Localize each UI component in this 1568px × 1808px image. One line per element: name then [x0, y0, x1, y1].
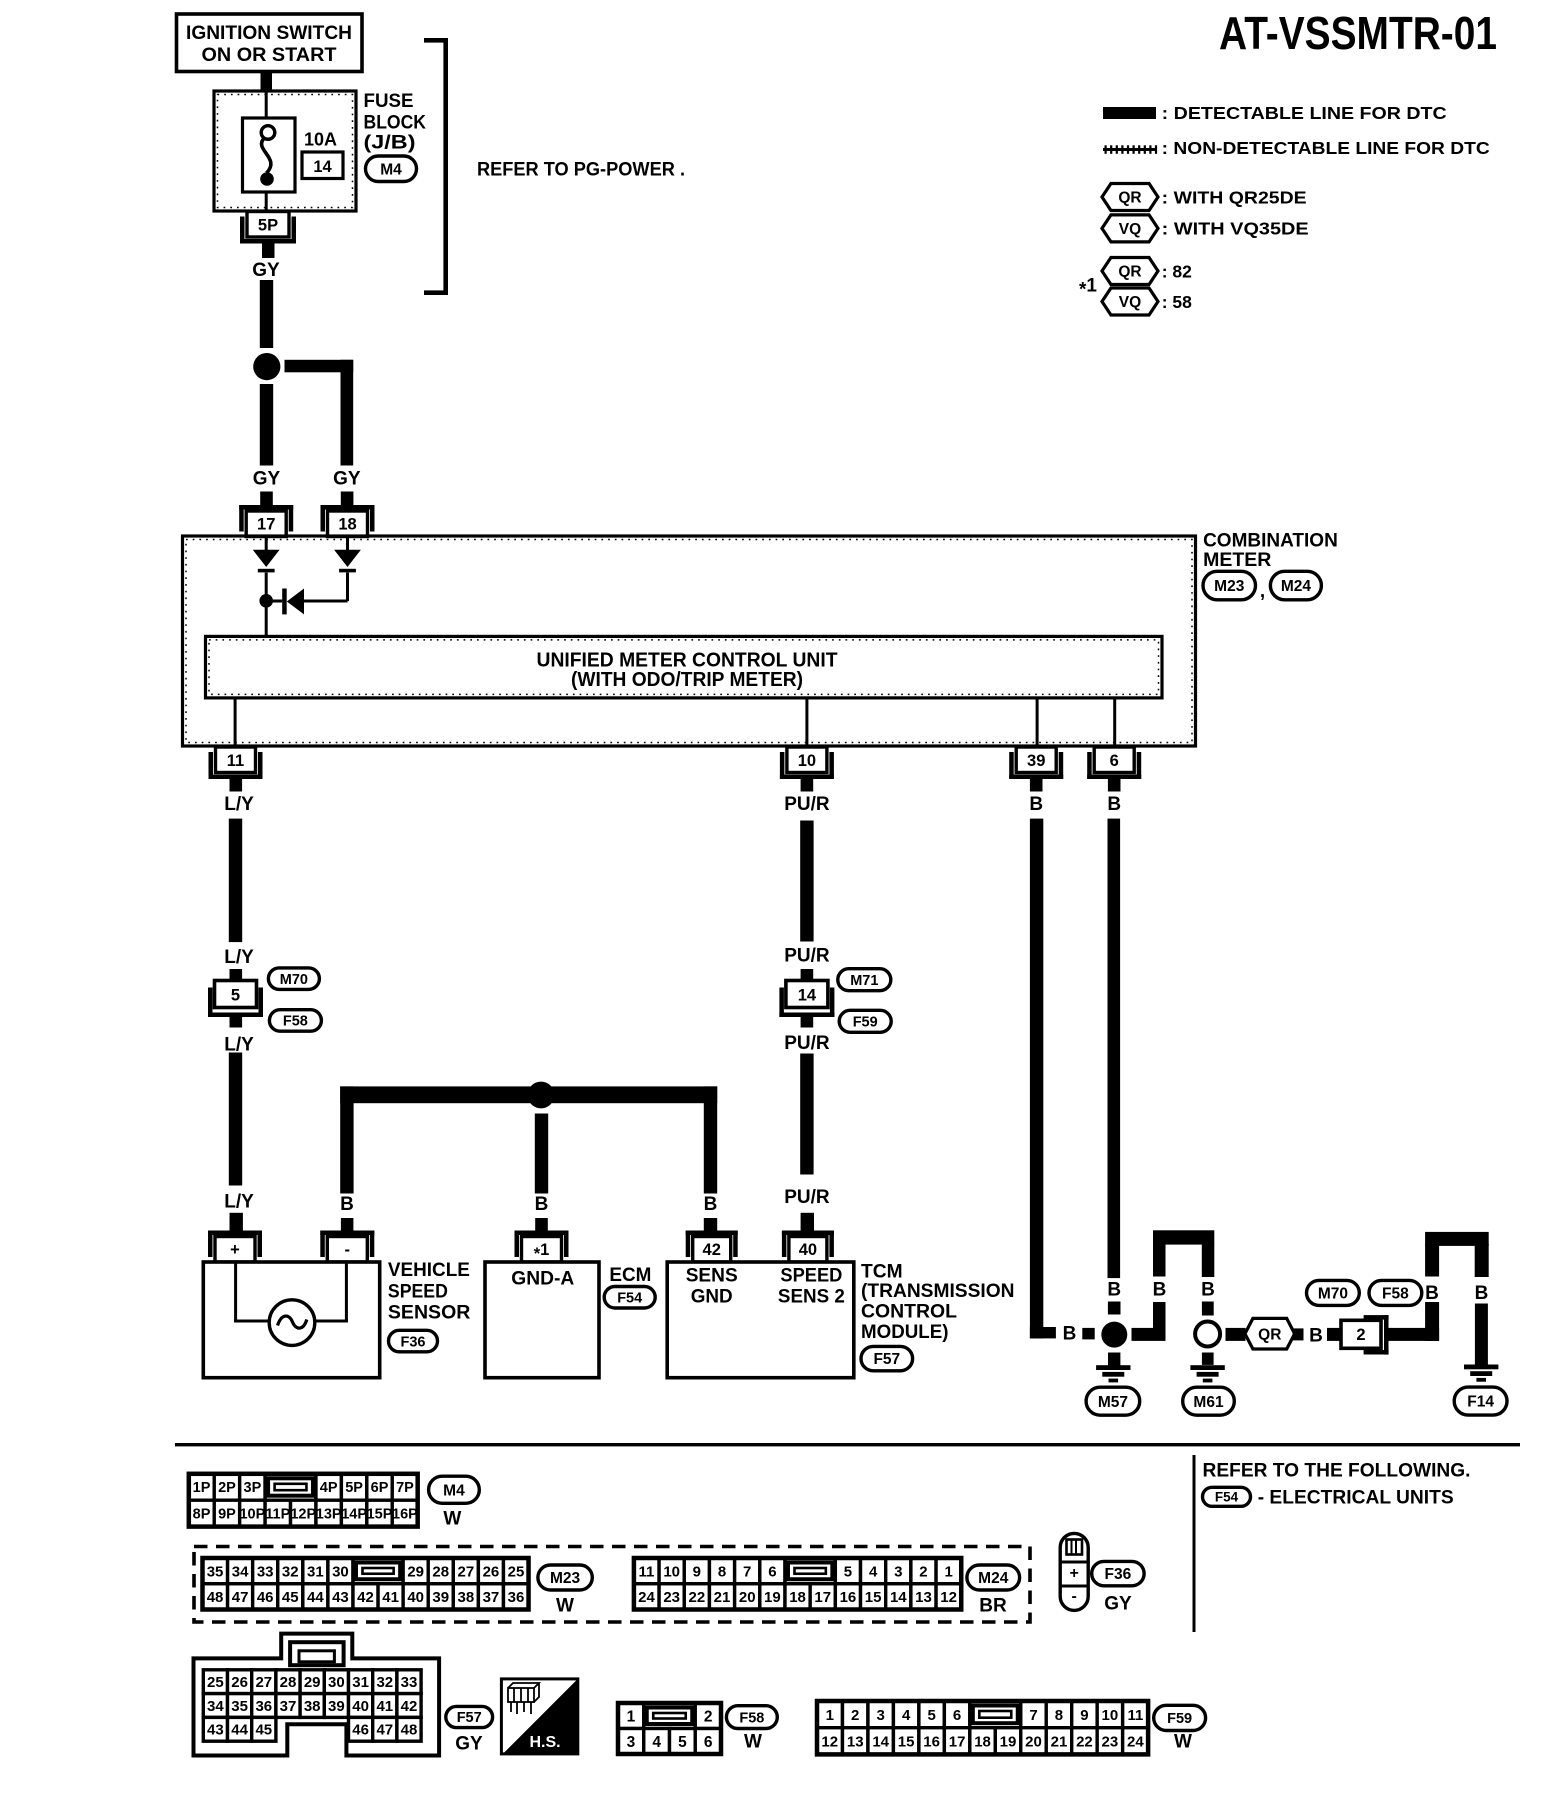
wire seg to M57: [1082, 1328, 1094, 1340]
svg-text:F36: F36: [401, 1334, 426, 1350]
svg-text:37: 37: [483, 1589, 500, 1606]
svg-text:9: 9: [1080, 1707, 1088, 1724]
svg-text:IGNITION SWITCH: IGNITION SWITCH: [186, 23, 352, 44]
wire GY branch to 18: [285, 360, 354, 466]
svg-text:34: 34: [232, 1563, 249, 1580]
svg-text:33: 33: [401, 1674, 418, 1691]
wire into fuse: [265, 92, 268, 119]
svg-text:B: B: [535, 1194, 549, 1215]
wire nub below connector 5: [230, 1016, 243, 1028]
svg-text:B: B: [1107, 1279, 1121, 1300]
svg-text:10: 10: [663, 1563, 680, 1580]
svg-text:42: 42: [703, 1241, 721, 1259]
svg-text:F58: F58: [283, 1014, 308, 1030]
svg-text:6: 6: [768, 1563, 776, 1580]
svg-text:M4: M4: [443, 1482, 465, 1499]
connector ref M23: [1203, 571, 1256, 600]
svg-text:F59: F59: [1167, 1711, 1192, 1727]
svg-text:B: B: [1153, 1279, 1167, 1300]
junction node diodes: [259, 594, 273, 608]
label PU/R above TCM: [784, 1187, 830, 1208]
svg-text:8: 8: [1055, 1707, 1063, 1724]
connector ref M70: [268, 968, 319, 990]
svg-text:37: 37: [280, 1698, 297, 1715]
svg-text:M4: M4: [380, 161, 402, 178]
connector ref M4: [366, 156, 417, 182]
svg-text:26: 26: [231, 1674, 248, 1691]
wire B from 6: [1108, 819, 1121, 1279]
svg-text:43: 43: [207, 1722, 224, 1739]
svg-text:20: 20: [739, 1589, 756, 1606]
diode D3 left: [272, 589, 305, 615]
wire nub below connector 14: [801, 1016, 814, 1028]
label ECM: [609, 1264, 651, 1286]
svg-text:QR: QR: [1258, 1326, 1281, 1343]
svg-text:: NON-DETECTABLE LINE FOR DTC: : NON-DETECTABLE LINE FOR DTC: [1162, 138, 1490, 158]
legend detectable bar: [1103, 107, 1156, 119]
svg-text:15: 15: [898, 1733, 915, 1750]
svg-text:6P: 6P: [371, 1480, 389, 1496]
fuse rating 10A: [304, 130, 337, 150]
svg-text:F58: F58: [1382, 1285, 1409, 1302]
wire nub above connector 5: [230, 969, 243, 981]
svg-text:BLOCK: BLOCK: [364, 113, 427, 134]
svg-text:B: B: [1201, 1279, 1215, 1300]
svg-text:M24: M24: [978, 1570, 1009, 1587]
diode D1: [253, 550, 280, 573]
wire nub above connector 14: [801, 969, 814, 981]
svg-text:41: 41: [376, 1698, 393, 1715]
svg-text:GY: GY: [252, 260, 280, 281]
svg-text:5: 5: [927, 1707, 935, 1724]
svg-text:48: 48: [207, 1589, 224, 1606]
unified meter control unit box: [206, 636, 1163, 698]
label GND-A: [511, 1268, 574, 1290]
svg-text:35: 35: [231, 1698, 248, 1715]
svg-text:8P: 8P: [193, 1507, 211, 1523]
svg-text:2: 2: [919, 1563, 927, 1580]
svg-text:11: 11: [227, 752, 244, 770]
wire nub below 39: [1030, 779, 1043, 792]
svg-text:1P: 1P: [193, 1480, 211, 1496]
wire nub below 6: [1108, 779, 1121, 792]
svg-text:PU/R: PU/R: [784, 1187, 830, 1208]
label L/Y above M70: [224, 947, 254, 968]
svg-text:B: B: [1425, 1283, 1439, 1304]
label GY at 18: [333, 469, 361, 490]
svg-text:31: 31: [352, 1674, 369, 1691]
svg-text:VQ: VQ: [1119, 294, 1141, 311]
legend QR text: [1162, 188, 1307, 208]
svg-text:32: 32: [376, 1674, 393, 1691]
legend VQ text: [1162, 219, 1309, 239]
dashed combination meter connectors box: [194, 1547, 1030, 1623]
svg-text:M23: M23: [550, 1570, 581, 1587]
svg-text:F57: F57: [873, 1351, 900, 1368]
legend QR hexagon: [1102, 184, 1158, 211]
svg-text:23: 23: [663, 1589, 680, 1606]
svg-text:B: B: [1309, 1326, 1323, 1347]
connector ref F36 bottom: [1092, 1561, 1144, 1585]
svg-text:VEHICLE: VEHICLE: [388, 1259, 470, 1281]
fusible link F36 symbol: [1060, 1533, 1088, 1610]
svg-text:14P: 14P: [341, 1507, 367, 1523]
label B above star1: [535, 1194, 549, 1215]
svg-text:16: 16: [923, 1733, 940, 1750]
wire PU/R lower: [800, 1054, 813, 1175]
connector 17: [239, 505, 293, 537]
label GY under F57: [455, 1734, 483, 1755]
svg-text:B: B: [340, 1194, 354, 1215]
connector ref M23 bottom: [538, 1565, 592, 1590]
svg-text:33: 33: [257, 1563, 274, 1580]
wire n-shape over M61 left leg: [1153, 1244, 1166, 1340]
svg-text:2: 2: [704, 1708, 713, 1725]
label B right leg: [1201, 1279, 1215, 1300]
svg-text:1: 1: [826, 1707, 834, 1724]
connector ref F54 bottom: [1203, 1487, 1251, 1506]
svg-text:36: 36: [508, 1589, 525, 1606]
svg-text:10A: 10A: [304, 130, 337, 150]
svg-text:44: 44: [307, 1589, 324, 1606]
wire B to connector 2: [1327, 1328, 1342, 1341]
ground ref M61: [1183, 1387, 1235, 1415]
svg-text:BR: BR: [979, 1596, 1007, 1617]
label L/Y above VSS: [224, 1192, 254, 1213]
svg-text:45: 45: [255, 1722, 272, 1739]
ground ref F14: [1454, 1387, 1507, 1415]
svg-text:: 82: : 82: [1162, 262, 1192, 282]
wire B bus mid leg: [535, 1114, 548, 1194]
label W under F59: [1174, 1732, 1192, 1753]
svg-text:25: 25: [207, 1674, 224, 1691]
svg-text:40: 40: [407, 1589, 424, 1606]
svg-text:+: +: [230, 1241, 240, 1259]
label W under M23: [556, 1596, 574, 1617]
svg-text:PU/R: PU/R: [784, 946, 830, 967]
connector 6: [1087, 747, 1141, 779]
svg-text:: WITH VQ35DE: : WITH VQ35DE: [1162, 219, 1309, 239]
speed sensor source: [269, 1300, 315, 1346]
connector ref F58 bottom: [726, 1706, 777, 1729]
ground F14: [1464, 1365, 1498, 1382]
svg-text:(WITH ODO/TRIP METER): (WITH ODO/TRIP METER): [571, 669, 803, 691]
svg-text:29: 29: [407, 1563, 424, 1580]
wire minus to source: [313, 1262, 348, 1323]
svg-text:17: 17: [814, 1589, 831, 1606]
connector view M4 grid: [189, 1474, 418, 1527]
svg-text:17: 17: [949, 1733, 966, 1750]
svg-text:6: 6: [953, 1707, 961, 1724]
svg-text:17: 17: [257, 516, 275, 534]
label SPEED SENS 2: [778, 1265, 845, 1308]
svg-text:ECM: ECM: [609, 1264, 651, 1286]
svg-text:36: 36: [255, 1698, 272, 1715]
connector ref F57: [861, 1346, 913, 1370]
svg-text:W: W: [443, 1509, 461, 1530]
svg-text:48: 48: [401, 1722, 418, 1739]
label PU/R above M71: [784, 946, 830, 967]
wire nub above plus: [230, 1213, 243, 1231]
separator line: [175, 1443, 1520, 1446]
svg-text:26: 26: [483, 1563, 500, 1580]
wire nub to 18: [341, 492, 354, 511]
svg-text:19: 19: [764, 1589, 781, 1606]
label GY at 5P: [252, 260, 280, 281]
wire D2 to D3: [301, 600, 348, 603]
legend VQ 58 hexagon: [1102, 288, 1158, 315]
wire L/Y lower: [229, 1053, 242, 1186]
svg-text:1: 1: [944, 1563, 952, 1580]
wire plus to source: [234, 1262, 270, 1323]
svg-text:M70: M70: [280, 972, 308, 988]
svg-text:2P: 2P: [218, 1480, 236, 1496]
wire D2 down: [346, 573, 349, 602]
junction circle M61: [1195, 1322, 1220, 1347]
connector ref M70 right: [1307, 1280, 1360, 1305]
ground ref M57: [1086, 1387, 1140, 1415]
connector ref F58: [269, 1010, 321, 1031]
vehicle speed sensor box: [203, 1262, 379, 1378]
svg-text:4: 4: [652, 1734, 661, 1751]
svg-text:25: 25: [508, 1563, 525, 1580]
svg-text:22: 22: [689, 1589, 706, 1606]
svg-text:: DETECTABLE LINE FOR DTC: : DETECTABLE LINE FOR DTC: [1162, 103, 1447, 123]
svg-text:6: 6: [1110, 752, 1119, 770]
connector ref M4 bottom: [429, 1476, 480, 1503]
label REFER TO PG-POWER: [477, 160, 685, 181]
connector ref F54: [604, 1287, 655, 1309]
svg-text:30: 30: [328, 1674, 345, 1691]
svg-text:18: 18: [789, 1589, 806, 1606]
svg-text:H.S.: H.S.: [529, 1734, 560, 1751]
svg-text:31: 31: [307, 1563, 324, 1580]
svg-text:12P: 12P: [290, 1507, 316, 1523]
svg-text:L/Y: L/Y: [224, 794, 254, 815]
svg-text:14: 14: [313, 158, 332, 176]
ground M57: [1096, 1365, 1130, 1382]
svg-text:39: 39: [1027, 752, 1045, 770]
svg-text:40: 40: [352, 1698, 369, 1715]
label B above minus: [340, 1194, 354, 1215]
wire nub below 10: [801, 779, 814, 792]
divider vertical line: [1193, 1455, 1196, 1632]
legend non-detectable bar: [1103, 145, 1157, 154]
svg-text:B: B: [1107, 794, 1121, 815]
svg-text:GY: GY: [333, 469, 361, 490]
wire nub above 40: [801, 1213, 814, 1231]
label BR under M24: [979, 1596, 1007, 1617]
connector view M24 grid: [634, 1558, 961, 1610]
svg-text:VQ: VQ: [1119, 221, 1141, 238]
svg-text:29: 29: [304, 1674, 321, 1691]
svg-text:SENSOR: SENSOR: [388, 1302, 471, 1324]
svg-text:21: 21: [1051, 1733, 1068, 1750]
svg-text:11P: 11P: [265, 1507, 290, 1523]
svg-text:5P: 5P: [258, 217, 278, 235]
svg-text:7: 7: [743, 1563, 751, 1580]
label FUSE BLOCK (J/B): [364, 91, 427, 153]
ground M61: [1190, 1365, 1224, 1382]
connector 42: [686, 1231, 738, 1263]
svg-text:L/Y: L/Y: [224, 947, 254, 968]
connector view M23 grid: [203, 1558, 529, 1610]
svg-text:F36: F36: [1105, 1566, 1132, 1583]
svg-text:SPEED: SPEED: [388, 1280, 448, 1302]
svg-text:GND: GND: [691, 1285, 733, 1307]
svg-text:-: -: [1072, 1588, 1077, 1605]
label B above M57: [1107, 1279, 1121, 1300]
svg-text:10: 10: [798, 752, 816, 770]
svg-text:FUSE: FUSE: [364, 91, 414, 112]
svg-text:27: 27: [457, 1563, 474, 1580]
svg-text:43: 43: [332, 1589, 349, 1606]
svg-text:35: 35: [207, 1563, 224, 1580]
svg-text:QR: QR: [1118, 190, 1141, 207]
svg-text:22: 22: [1076, 1733, 1093, 1750]
svg-text:7P: 7P: [396, 1480, 414, 1496]
svg-text:GND-A: GND-A: [511, 1268, 574, 1290]
svg-text:7: 7: [1029, 1707, 1037, 1724]
label GY under F36: [1104, 1594, 1132, 1615]
connector view F57 outline: [194, 1634, 440, 1756]
svg-text:3: 3: [894, 1563, 902, 1580]
label B left leg: [1153, 1279, 1167, 1300]
svg-text:46: 46: [352, 1722, 369, 1739]
wire to F14 ground: [1475, 1304, 1488, 1365]
connector ref M24 bottom: [967, 1565, 1020, 1590]
label COMBINATION METER: [1203, 529, 1338, 570]
wire n-shape to F14 right leg: [1475, 1244, 1489, 1277]
wire connector 2 to n-shape: [1388, 1328, 1439, 1341]
legend QR 82 text: [1162, 262, 1192, 282]
label VEHICLE SPEED SENSOR: [388, 1259, 471, 1324]
connector 39: [1009, 747, 1063, 779]
wire nub above minus: [341, 1218, 354, 1231]
connector 10: [780, 747, 834, 779]
svg-text:REFER TO THE FOLLOWING.: REFER TO THE FOLLOWING.: [1203, 1460, 1471, 1482]
ECM box: [485, 1262, 599, 1378]
legend detectable text: [1162, 103, 1447, 123]
comma between M23 M24: [1260, 581, 1265, 602]
label PU/R below 10: [784, 794, 830, 815]
svg-text:45: 45: [282, 1589, 299, 1606]
connector 40: [782, 1231, 834, 1263]
svg-text:3P: 3P: [244, 1480, 262, 1496]
svg-text:M71: M71: [850, 973, 878, 989]
spec hexagon QR: [1245, 1318, 1295, 1349]
svg-text:SENS: SENS: [686, 1265, 738, 1287]
legend VQ 58 text: [1162, 292, 1192, 312]
svg-text:3: 3: [877, 1707, 885, 1724]
wire M57 to ground: [1108, 1353, 1120, 1366]
label B near M57 left: [1063, 1324, 1077, 1345]
connector view F57 pins: [203, 1670, 421, 1741]
svg-text:24: 24: [638, 1589, 655, 1606]
connector ref F59 bottom: [1154, 1705, 1206, 1730]
diode D2 wire: [346, 538, 349, 550]
svg-text:B: B: [1063, 1324, 1077, 1345]
label SENS GND: [686, 1265, 738, 1308]
inline connector 14 M71-F59: [779, 981, 834, 1018]
svg-text:15P: 15P: [367, 1507, 393, 1523]
svg-text:REFER TO PG-POWER .: REFER TO PG-POWER .: [477, 160, 685, 181]
wire n-shape to F14 top: [1425, 1232, 1489, 1246]
wire D1 to node: [265, 573, 268, 596]
junction dot M57: [1101, 1322, 1127, 1348]
label ELECTRICAL UNITS: [1258, 1487, 1454, 1509]
label PU/R below F59: [784, 1033, 830, 1054]
connector ref F57 bottom: [446, 1706, 493, 1727]
svg-text:B: B: [1029, 794, 1043, 815]
svg-text:14: 14: [798, 987, 817, 1005]
svg-text:39: 39: [432, 1589, 449, 1606]
connector view F58 grid: [618, 1703, 721, 1754]
svg-text:METER: METER: [1203, 549, 1271, 571]
svg-text:13: 13: [847, 1733, 864, 1750]
svg-text:14: 14: [872, 1733, 889, 1750]
wire unified to pin 11: [234, 698, 237, 747]
svg-text:42: 42: [357, 1589, 374, 1606]
connector ref M71: [838, 969, 891, 991]
svg-text:30: 30: [332, 1563, 349, 1580]
wire B bus left leg: [340, 1086, 353, 1193]
wire GY to 17: [260, 384, 273, 466]
svg-text:44: 44: [231, 1722, 248, 1739]
svg-text:21: 21: [714, 1589, 731, 1606]
svg-text:20: 20: [1025, 1733, 1042, 1750]
svg-text:PU/R: PU/R: [784, 1033, 830, 1054]
svg-text:42: 42: [401, 1698, 418, 1715]
svg-text:F14: F14: [1467, 1394, 1494, 1411]
svg-text:16: 16: [840, 1589, 857, 1606]
svg-text:4P: 4P: [320, 1480, 338, 1496]
svg-text:(J/B): (J/B): [364, 132, 416, 153]
svg-text:- ELECTRICAL UNITS: - ELECTRICAL UNITS: [1258, 1487, 1454, 1509]
view H.S. symbol: [501, 1679, 577, 1754]
wire nub above M61: [1202, 1302, 1214, 1316]
wire 5P down: [262, 244, 275, 259]
connector 18: [321, 505, 375, 537]
wire unified to pin 6: [1113, 698, 1116, 747]
label L/Y below F58: [224, 1035, 254, 1056]
svg-text:23: 23: [1102, 1733, 1119, 1750]
wire n-shape to F14 left leg: [1425, 1244, 1439, 1341]
label TCM: [861, 1261, 1015, 1344]
svg-text:CONTROL: CONTROL: [861, 1301, 957, 1323]
diode D2: [334, 550, 361, 573]
legend non-detectable text: [1162, 138, 1490, 158]
svg-text:4: 4: [902, 1707, 911, 1724]
svg-text:PU/R: PU/R: [784, 794, 830, 815]
connector ref F58 right: [1369, 1280, 1422, 1305]
svg-text:39: 39: [328, 1698, 345, 1715]
refer to PG-POWER bracket: [424, 38, 448, 295]
diode D1 wire: [265, 538, 268, 550]
connector ref F36: [389, 1330, 438, 1352]
svg-text:19: 19: [1000, 1733, 1017, 1750]
connector star1: [515, 1231, 569, 1264]
junction dot B bus: [528, 1082, 555, 1109]
svg-text:GY: GY: [1104, 1594, 1132, 1615]
svg-text:28: 28: [432, 1563, 449, 1580]
legend QR 82 hexagon: [1102, 258, 1158, 285]
svg-text:M57: M57: [1098, 1394, 1128, 1411]
wire unified to pin 10: [805, 698, 808, 747]
wire M57 to right: [1132, 1328, 1166, 1341]
svg-text:-: -: [345, 1241, 351, 1259]
wire B bus right leg: [704, 1086, 717, 1193]
